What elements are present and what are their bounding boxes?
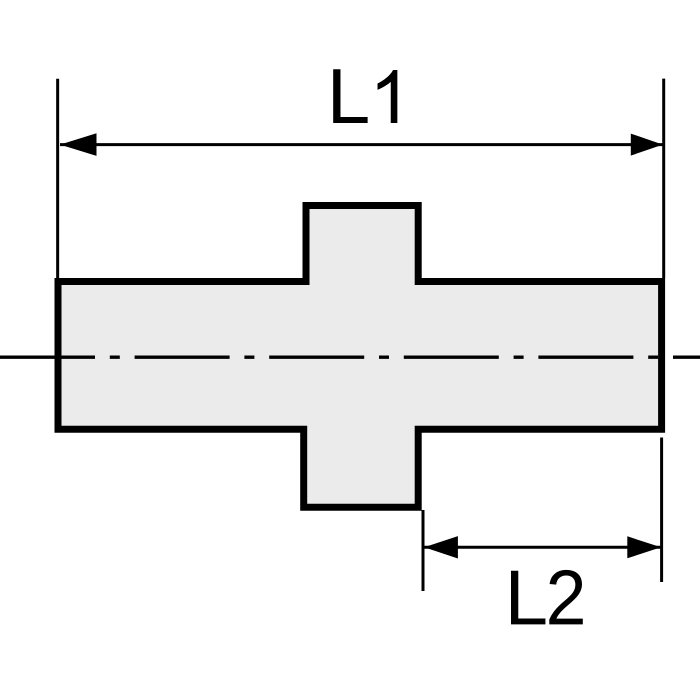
- dimension line L1: [60, 143, 663, 146]
- label L2: [511, 570, 583, 625]
- centerline (dash-dot axis): [0, 356, 700, 359]
- arrowhead L2 left: [424, 536, 458, 558]
- arrowhead L1 right: [631, 134, 663, 156]
- fitting body cross-section: [58, 206, 662, 508]
- arrowhead L1 left: [60, 133, 97, 156]
- dimension line L2: [424, 546, 661, 549]
- extension line L1 right: [662, 79, 665, 278]
- extension line L2 left: [422, 510, 425, 591]
- extension line L1 left: [56, 79, 59, 278]
- arrowhead L2 right: [627, 536, 661, 558]
- extension line L2 right: [660, 438, 663, 583]
- label L1: [333, 69, 397, 123]
